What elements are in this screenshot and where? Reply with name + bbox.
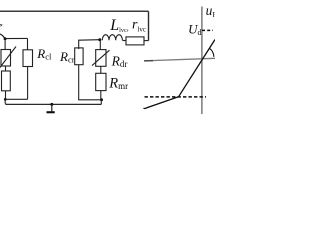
resistor box R4b (Rmr) (96, 73, 106, 90)
bottom rail (6, 103, 102, 105)
wire branch2 riser (27, 38, 29, 49)
wire between R1 and R1b (5, 66, 7, 71)
dashed level -Ud (145, 96, 207, 98)
wire incoming curve at left edge (0, 34, 5, 39)
label fragment top-left (cropped) (0, 25, 2, 27)
axis horizontal (144, 58, 215, 61)
wire branch3 bottom (79, 65, 102, 100)
wire branch4 bottom (100, 91, 102, 100)
resistor box R3 (Rcr) (75, 48, 83, 65)
wire between R4 and R4b (100, 66, 102, 73)
wire branch1 riser (4, 39, 6, 50)
varistor diagonal R1 (0, 47, 16, 69)
curve steep segment (179, 40, 216, 97)
resistor box R1b (2, 71, 11, 91)
axis vertical (201, 7, 203, 115)
node dot mid top (98, 38, 101, 41)
node dot bottom-left (4, 98, 7, 101)
curve shallow segment (144, 97, 179, 109)
wire from dot down to rail (5, 99, 6, 104)
wire bottom link left pair (5, 98, 28, 100)
varistor diagonal R4 (92, 50, 110, 65)
resistor box R4 (varistor Rdr) (96, 50, 106, 67)
dashed level +Ud (202, 29, 213, 31)
wire rail up to node (100, 100, 102, 105)
resistor box R1 (varistor) (1, 50, 11, 67)
node dot bottom-right (100, 98, 103, 101)
resistor box R2 (23, 50, 33, 67)
axis h arrow blob (144, 60, 153, 62)
wire rail right drop (148, 11, 150, 40)
wire branch2 bottom (27, 67, 29, 100)
wire box to corner (144, 40, 149, 42)
wire left pair top (5, 37, 27, 39)
inductor L coil (102, 35, 122, 41)
node dot left (4, 37, 7, 40)
angle arc (209, 48, 214, 57)
ground stem (51, 104, 53, 111)
wire branch4 riser (99, 40, 101, 50)
ground node dot (50, 103, 53, 106)
wire coil to box (122, 40, 126, 42)
wire top rail (0, 10, 149, 12)
ground bar (47, 111, 55, 113)
wire branch1 bottom (5, 91, 7, 100)
wire branch3 riser corner (79, 40, 100, 49)
resistor box r_lvc (126, 37, 144, 45)
